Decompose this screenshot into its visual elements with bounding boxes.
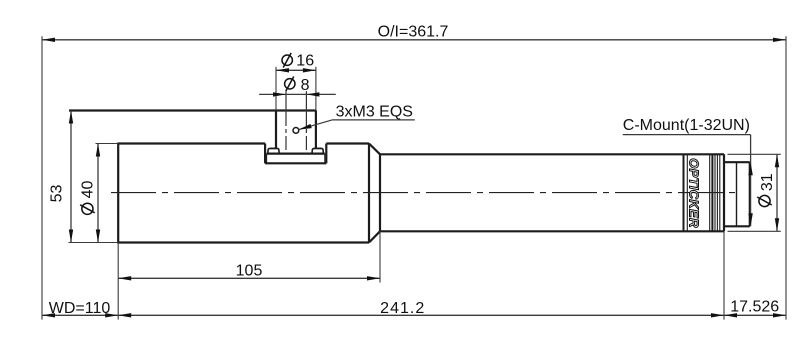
svg-text:3xM3 EQS: 3xM3 EQS xyxy=(336,104,413,121)
svg-text:17.526: 17.526 xyxy=(730,298,779,315)
svg-text:O/I=361.7: O/I=361.7 xyxy=(378,23,449,40)
svg-text:WD=110: WD=110 xyxy=(49,300,111,317)
svg-text:53: 53 xyxy=(49,185,66,203)
svg-text:8: 8 xyxy=(301,77,310,94)
svg-text:C-Mount(1-32UN): C-Mount(1-32UN) xyxy=(623,117,750,134)
svg-text:OPTICKER: OPTICKER xyxy=(687,158,702,228)
svg-text:241.2: 241.2 xyxy=(380,300,425,317)
svg-text:31: 31 xyxy=(759,173,776,191)
svg-text:40: 40 xyxy=(80,181,97,199)
svg-text:105: 105 xyxy=(236,262,263,279)
svg-text:16: 16 xyxy=(296,53,314,70)
